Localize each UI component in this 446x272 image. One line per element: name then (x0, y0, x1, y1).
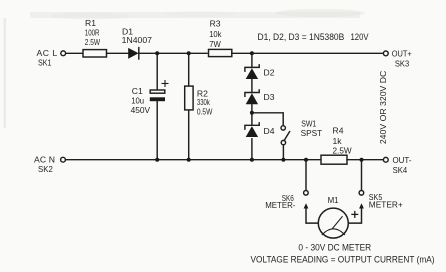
svg-text:SK1: SK1 (38, 57, 52, 67)
capacitor C1 top plate (150, 90, 165, 93)
svg-text:SK2: SK2 (38, 164, 53, 174)
switch SW1 (281, 126, 285, 130)
resistor R4 (321, 155, 347, 164)
svg-text:D3: D3 (264, 92, 275, 102)
diode D1 cathode bar (138, 48, 140, 59)
svg-text:240V OR 320V DC: 240V OR 320V DC (379, 71, 388, 145)
terminal SK1 (AC L) (61, 51, 66, 56)
node: D1/C1 junction (155, 51, 159, 55)
wire C1 branch upper (156, 53, 158, 90)
zener D4 triangle (246, 126, 258, 137)
wire meter positive lead (348, 208, 361, 223)
node: zener chain top junction (250, 51, 254, 55)
svg-text:7W: 7W (209, 39, 221, 49)
node: SK5 junction (360, 158, 364, 162)
wire top rail: R3 to SK3 (232, 52, 384, 54)
wire D4 to bottom rail (251, 139, 253, 160)
svg-text:VOLTAGE READING = OUTPUT CURRE: VOLTAGE READING = OUTPUT CURRENT (mA) (251, 255, 435, 265)
wire zener chain top (251, 53, 253, 67)
svg-text:OUT+: OUT+ (392, 49, 412, 59)
svg-text:1N4007: 1N4007 (122, 35, 153, 45)
zener D3 triangle (246, 93, 258, 104)
wire C1 branch lower (156, 101, 158, 160)
terminal SK2 (AC N) (61, 157, 66, 162)
junction dots (155, 51, 363, 161)
wire top rail: D1 to R3 (139, 52, 207, 54)
zener D3 cathode bar (245, 90, 259, 96)
svg-text:0 - 30V DC METER: 0 - 30V DC METER (298, 243, 371, 253)
svg-text:10u: 10u (131, 96, 144, 106)
node: R2 top junction (187, 51, 191, 55)
wire D3 to node A (251, 104, 253, 125)
node: C1 bottom junction (155, 158, 159, 162)
wire D2 to D3 (251, 79, 253, 93)
meter M1 (318, 208, 348, 238)
node: SW1 bottom junction (281, 158, 285, 162)
svg-text:R3: R3 (210, 18, 221, 28)
svg-text:SK4: SK4 (393, 165, 408, 175)
svg-text:METER+: METER+ (369, 199, 403, 209)
wire node A to SW1 (252, 113, 283, 126)
resistor R3 (209, 49, 232, 56)
wire bottom rail: R4 to SK4 (347, 159, 383, 161)
terminal SK3 (OUT+) (383, 51, 388, 56)
wire SW1 to bottom rail (282, 145, 284, 160)
resistor R2 (185, 86, 193, 110)
svg-text:R4: R4 (333, 126, 344, 136)
svg-text:D1, D2, D3 = 1N5380B: D1, D2, D3 = 1N5380B (258, 32, 345, 42)
svg-text:SK3: SK3 (395, 58, 409, 68)
capacitor C1 polarity + (162, 80, 169, 87)
terminal SK5 (METER+) (359, 191, 364, 196)
svg-text:M1: M1 (328, 195, 339, 205)
wire SK6 stub (305, 160, 307, 191)
svg-text:10k: 10k (209, 29, 222, 39)
svg-text:1k: 1k (333, 136, 343, 146)
svg-text:SPST: SPST (301, 128, 323, 138)
svg-text:METER-: METER- (265, 200, 295, 210)
svg-text:D4: D4 (264, 126, 275, 136)
svg-text:AC N: AC N (34, 154, 55, 164)
svg-text:D2: D2 (264, 67, 275, 77)
resistor R1 (83, 50, 107, 57)
wire bottom rail: SK2 to R4 (66, 159, 321, 161)
svg-text:2.5W: 2.5W (333, 146, 353, 156)
node A: D3/D4 junction (250, 111, 254, 115)
capacitor C1 bottom plate (150, 97, 165, 101)
wire SK5 stub (361, 160, 363, 191)
wire top rail: R1 to D1 (107, 52, 129, 54)
terminal SK6 (METER-) (304, 191, 309, 196)
svg-text:450V: 450V (131, 105, 151, 115)
svg-text:120V: 120V (351, 32, 369, 42)
wire top rail: SK1 to R1 (66, 52, 83, 54)
svg-text:OUT-: OUT- (393, 155, 412, 165)
node: R2 bottom junction (187, 158, 191, 162)
zener D4 cathode bar (245, 123, 259, 129)
svg-text:2.5W: 2.5W (85, 37, 101, 47)
svg-text:0.5W: 0.5W (197, 106, 213, 116)
diode D1 (128, 48, 138, 59)
zener D2 cathode bar (245, 65, 259, 71)
wire R2 branch lower (188, 111, 190, 160)
node: SK6 junction (304, 158, 308, 162)
wire R2 branch upper (188, 53, 190, 86)
wire meter negative lead (306, 208, 318, 223)
meter lead arrows (304, 203, 309, 208)
terminal SK4 (OUT-) (383, 157, 388, 162)
zener D2 triangle (246, 68, 258, 79)
meter plus sign (351, 211, 358, 218)
node: D4 bottom junction (250, 158, 254, 162)
